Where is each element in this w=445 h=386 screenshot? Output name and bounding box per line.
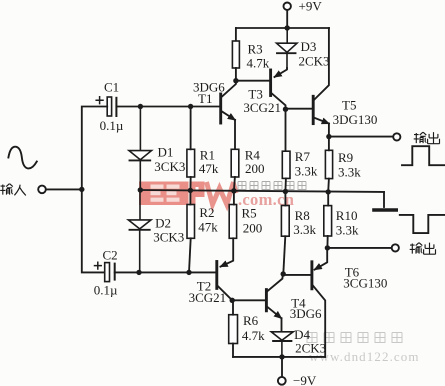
svg-text:3.3k: 3.3k <box>293 222 316 237</box>
resistor R8 <box>281 206 289 237</box>
wire R5 top lead <box>233 191 235 205</box>
wire R7 bottom lead <box>284 178 287 191</box>
node input junction <box>79 187 84 192</box>
wire T2 collector <box>217 285 232 300</box>
wire R10 top lead <box>327 192 329 206</box>
wire middle rail <box>140 190 384 192</box>
wire R2 top lead <box>189 190 191 204</box>
capacitor C2 <box>95 262 115 281</box>
-9V terminal <box>278 377 286 385</box>
wire R8 top lead <box>284 192 286 206</box>
diode D2 <box>128 190 151 272</box>
resistor R10 <box>324 206 332 236</box>
resistor R6 <box>229 315 238 344</box>
wire R4 bottom lead <box>234 177 235 191</box>
wire T5 collector <box>314 28 329 100</box>
wire D3 to T3 emitter <box>275 68 288 77</box>
wire T4 base <box>232 299 265 301</box>
wire T1 emitter <box>222 111 235 120</box>
wire R9 top lead <box>328 137 330 151</box>
diode D4 <box>271 332 293 357</box>
svg-text:3DG6: 3DG6 <box>290 306 322 321</box>
wire R10 bottom lead <box>326 236 328 248</box>
wire C1 right to T1 base <box>116 106 219 108</box>
svg-text:200: 200 <box>243 221 263 236</box>
svg-text:T5: T5 <box>342 98 356 113</box>
wire R5 bottom to T2 emitter <box>221 238 234 266</box>
node rail R1 junction <box>188 188 193 193</box>
transistor T3 bar <box>269 70 272 96</box>
node C2-D2 junction <box>136 270 141 275</box>
wire T6 base <box>283 274 310 276</box>
svg-text:R7: R7 <box>295 149 311 164</box>
node T2 collector junction <box>230 298 235 303</box>
svg-text:D1: D1 <box>158 145 174 160</box>
wire input <box>46 188 82 190</box>
transistor T5 bar <box>312 96 315 123</box>
svg-text:D3: D3 <box>301 39 317 54</box>
svg-text:R3: R3 <box>248 42 263 57</box>
svg-text:R5: R5 <box>242 206 257 221</box>
svg-text:T1: T1 <box>198 91 212 106</box>
svg-text:3CG130: 3CG130 <box>343 276 387 291</box>
wire +9V stem <box>286 10 288 28</box>
transistor T4 bar <box>265 290 268 311</box>
output terminal bottom <box>392 244 399 251</box>
svg-text:0.1µ: 0.1µ <box>94 283 118 298</box>
sine wave symbol <box>8 147 36 169</box>
svg-text:R8: R8 <box>295 208 310 223</box>
watermark bottom right <box>307 333 420 365</box>
node top rail junction <box>285 25 290 30</box>
svg-text:3CG21: 3CG21 <box>243 100 281 115</box>
resistor R7 <box>282 151 290 178</box>
resistor R1 <box>187 149 195 177</box>
svg-text:3CK3: 3CK3 <box>153 230 184 245</box>
resistor R9 <box>325 150 332 178</box>
diode D1 <box>129 107 152 190</box>
ground bar <box>374 208 396 212</box>
wire R8 bottom lead <box>283 236 285 274</box>
wire T5 base <box>286 108 312 110</box>
wire rail to ground <box>383 192 385 207</box>
label output bottom (Chinese) <box>410 243 436 255</box>
node T4 collector junction <box>281 271 286 276</box>
wire R6 bottom lead <box>232 344 234 357</box>
svg-text:C1: C1 <box>104 80 119 95</box>
resistor R2 <box>187 205 195 239</box>
svg-text:47k: 47k <box>199 161 219 176</box>
diode D3 <box>277 28 298 68</box>
node rail R7 junction <box>283 189 288 194</box>
resistor R5 <box>229 205 236 239</box>
wire R1 bottom lead <box>189 177 191 190</box>
resistor R3 <box>232 41 239 68</box>
node T2 base junction <box>186 270 191 275</box>
svg-text:4.7k: 4.7k <box>242 328 265 343</box>
svg-text:R2: R2 <box>199 205 214 220</box>
svg-text:4.7k: 4.7k <box>247 56 270 71</box>
wire R9 bottom lead <box>327 179 330 192</box>
wire T3 collector <box>271 92 286 109</box>
node C1-D1 junction <box>138 104 143 109</box>
wire T3 base <box>236 80 269 82</box>
waveform top right <box>402 146 445 165</box>
wire top rail <box>236 27 329 29</box>
svg-text:+9V: +9V <box>299 0 323 14</box>
node rail D junction <box>138 187 143 192</box>
node rail R9 junction <box>326 189 331 194</box>
node T3 collector junction <box>283 107 288 112</box>
svg-text:3CK3: 3CK3 <box>154 159 185 174</box>
wire R7 top lead <box>285 109 287 151</box>
svg-text:3.3k: 3.3k <box>295 164 318 179</box>
wire R1 top lead <box>190 107 192 150</box>
wire output bottom <box>327 247 391 249</box>
svg-text:200: 200 <box>245 161 265 176</box>
label input (Chinese) <box>0 184 26 196</box>
svg-text:R9: R9 <box>338 150 353 165</box>
output terminal top <box>393 133 400 140</box>
resistor R4 <box>231 149 239 177</box>
node R3 bottom junction <box>233 78 238 83</box>
svg-text:3DG130: 3DG130 <box>333 112 378 127</box>
node R1 top junction <box>188 104 193 109</box>
svg-text:−9V: −9V <box>293 373 317 386</box>
svg-text:47k: 47k <box>198 220 218 235</box>
wire R3 bottom lead <box>235 68 237 81</box>
wire R6 top lead <box>232 300 234 314</box>
svg-text:3CG21: 3CG21 <box>189 290 227 305</box>
transistor T1 bar <box>219 94 222 123</box>
svg-text:R10: R10 <box>336 208 358 223</box>
capacitor C1 <box>96 97 116 116</box>
watermark EEPW block <box>139 182 237 206</box>
watermark chinese grey row <box>238 182 306 190</box>
label output top (Chinese) <box>414 132 440 144</box>
svg-text:D2: D2 <box>155 216 171 231</box>
waveform bottom right <box>400 215 445 233</box>
wire T1 collector <box>222 81 236 97</box>
wire T6 emitter <box>315 248 328 270</box>
svg-text:3.3k: 3.3k <box>336 223 359 238</box>
svg-text:R6: R6 <box>243 313 259 328</box>
node bottom rail junction <box>279 354 284 359</box>
svg-text:3.3k: 3.3k <box>338 165 361 180</box>
wire T4 collector <box>267 274 283 292</box>
svg-text:C2: C2 <box>103 248 118 263</box>
wire R2 bottom lead <box>189 238 191 272</box>
wire T5 emitter <box>314 118 329 124</box>
transistor T2 bar <box>215 262 218 289</box>
wire -9V stem <box>281 357 283 377</box>
+9V terminal <box>284 2 291 9</box>
node T6 emitter junction <box>325 245 330 250</box>
wire input vertical left <box>82 107 107 273</box>
node T5 emitter junction <box>326 134 331 139</box>
svg-text:0.1µ: 0.1µ <box>100 118 124 133</box>
svg-text:2CK3: 2CK3 <box>299 54 330 69</box>
wire C2 right to T2 base <box>115 271 216 273</box>
wire T6 collector <box>312 285 325 357</box>
wire R3 top lead <box>235 28 237 41</box>
wire bottom rail <box>233 356 325 358</box>
wire T4 emitter <box>267 306 282 318</box>
transistor T6 bar <box>310 262 313 289</box>
wire output top <box>329 136 393 138</box>
svg-text:2CK3: 2CK3 <box>295 341 326 356</box>
node rail R4 junction <box>231 188 236 193</box>
input terminal <box>38 186 46 194</box>
